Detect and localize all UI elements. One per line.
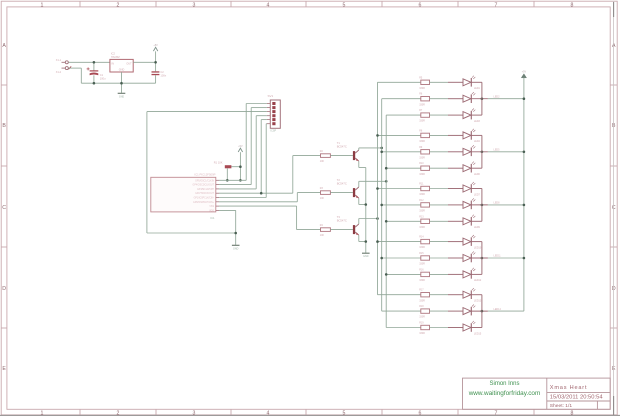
svg-text:C: C bbox=[2, 205, 6, 211]
svg-text:330R: 330R bbox=[419, 279, 425, 282]
svg-text:LED13: LED13 bbox=[474, 300, 482, 303]
svg-text:R11: R11 bbox=[419, 183, 424, 186]
svg-text:330R: 330R bbox=[419, 316, 425, 319]
svg-text:www.waitingforfriday.com: www.waitingforfriday.com bbox=[468, 390, 541, 397]
svg-text:VSS: VSS bbox=[209, 206, 214, 208]
svg-text:330R: 330R bbox=[419, 87, 425, 90]
svg-text:330R: 330R bbox=[419, 103, 425, 106]
svg-text:LED3: LED3 bbox=[474, 120, 481, 123]
svg-text:Simon Inns: Simon Inns bbox=[489, 381, 519, 387]
svg-text:BC547C: BC547C bbox=[337, 218, 347, 222]
svg-text:2: 2 bbox=[117, 3, 120, 9]
svg-text:7: 7 bbox=[495, 3, 498, 9]
svg-text:IC1: IC1 bbox=[210, 216, 215, 220]
svg-text:OUT: OUT bbox=[126, 62, 132, 65]
svg-text:BC547C: BC547C bbox=[337, 144, 347, 148]
svg-text:+5V: +5V bbox=[153, 44, 158, 47]
svg-text:LED9: LED9 bbox=[474, 226, 481, 229]
svg-text:R13: R13 bbox=[419, 215, 424, 218]
svg-text:100n: 100n bbox=[160, 73, 166, 77]
svg-text:LED7: LED7 bbox=[474, 193, 481, 196]
svg-text:LED12: LED12 bbox=[474, 279, 482, 282]
svg-text:R18: R18 bbox=[419, 305, 424, 308]
svg-text:330R: 330R bbox=[419, 210, 425, 213]
svg-text:+5V: +5V bbox=[522, 70, 527, 73]
svg-text:LED15: LED15 bbox=[474, 332, 482, 335]
svg-text:R16: R16 bbox=[419, 268, 424, 271]
svg-text:LED5: LED5 bbox=[494, 149, 501, 152]
svg-text:330R: 330R bbox=[419, 156, 425, 159]
svg-text:GND: GND bbox=[119, 95, 125, 98]
svg-text:SV1: SV1 bbox=[268, 94, 274, 98]
svg-text:330R: 330R bbox=[419, 246, 425, 249]
svg-text:330R: 330R bbox=[419, 120, 425, 123]
svg-text:GP3/MCLR/VPP: GP3/MCLR/VPP bbox=[197, 189, 214, 191]
svg-text:10K: 10K bbox=[320, 197, 325, 200]
svg-text:330R: 330R bbox=[419, 140, 425, 143]
svg-text:6: 6 bbox=[419, 3, 422, 9]
svg-text:Sheet: 1/1: Sheet: 1/1 bbox=[550, 403, 573, 409]
svg-text:R1 10K: R1 10K bbox=[214, 161, 223, 165]
svg-text:GP5/OSC1/CLKIN: GP5/OSC1/CLKIN bbox=[195, 180, 214, 182]
svg-text:LED14: LED14 bbox=[494, 308, 502, 311]
svg-text:R17: R17 bbox=[419, 289, 424, 292]
svg-text:LED6: LED6 bbox=[474, 173, 481, 176]
svg-text:330R: 330R bbox=[419, 193, 425, 196]
svg-text:15/03/2011 20:50:54: 15/03/2011 20:50:54 bbox=[550, 395, 604, 401]
svg-text:Xmas Heart: Xmas Heart bbox=[550, 385, 588, 391]
svg-text:D: D bbox=[2, 286, 6, 292]
svg-text:330R: 330R bbox=[419, 332, 425, 335]
svg-text:LED1: LED1 bbox=[474, 87, 481, 90]
svg-text:R14: R14 bbox=[419, 236, 424, 239]
svg-text:R10: R10 bbox=[419, 162, 424, 165]
svg-text:R15: R15 bbox=[419, 252, 424, 255]
svg-text:X1-2: X1-2 bbox=[56, 71, 62, 74]
svg-text:A: A bbox=[2, 43, 6, 49]
svg-text:100u: 100u bbox=[100, 76, 106, 80]
svg-text:VDD: VDD bbox=[209, 210, 214, 212]
svg-text:1: 1 bbox=[41, 3, 44, 9]
svg-text:C2: C2 bbox=[160, 70, 164, 74]
svg-text:R12: R12 bbox=[419, 199, 424, 202]
svg-text:LED10: LED10 bbox=[474, 246, 482, 249]
svg-text:GP2/T0CKI/COUT: GP2/T0CKI/COUT bbox=[195, 193, 214, 195]
svg-text:330R: 330R bbox=[419, 173, 425, 176]
svg-text:GP1/ICSPCLK/CIN-: GP1/ICSPCLK/CIN- bbox=[194, 198, 215, 200]
svg-text:4: 4 bbox=[267, 3, 270, 9]
svg-text:E: E bbox=[2, 366, 6, 372]
svg-text:5: 5 bbox=[343, 3, 346, 9]
svg-text:8: 8 bbox=[571, 3, 574, 9]
svg-text:C1: C1 bbox=[100, 73, 104, 77]
svg-text:+5V: +5V bbox=[238, 145, 243, 148]
svg-text:10K: 10K bbox=[320, 160, 325, 163]
svg-text:GP4/OSC2/CLKOUT: GP4/OSC2/CLKOUT bbox=[193, 185, 215, 187]
svg-text:LED4: LED4 bbox=[474, 140, 481, 143]
svg-text:10K: 10K bbox=[320, 234, 325, 237]
svg-text:IN: IN bbox=[111, 62, 114, 65]
svg-text:ICSP: ICSP bbox=[271, 129, 277, 132]
svg-text:78L05Z: 78L05Z bbox=[111, 55, 120, 59]
svg-text:330R: 330R bbox=[419, 299, 425, 302]
svg-text:IC1 PIC12F509P: IC1 PIC12F509P bbox=[194, 173, 215, 177]
svg-text:GND: GND bbox=[363, 255, 369, 258]
svg-text:BC547C: BC547C bbox=[337, 181, 347, 185]
svg-text:GP0/ICSPDAT/CIN+: GP0/ICSPDAT/CIN+ bbox=[193, 201, 215, 204]
svg-text:GND: GND bbox=[119, 69, 125, 72]
svg-text:330R: 330R bbox=[419, 226, 425, 229]
svg-text:LED8: LED8 bbox=[494, 202, 501, 205]
svg-text:B: B bbox=[2, 123, 6, 129]
svg-text:330R: 330R bbox=[419, 263, 425, 266]
svg-text:LED2: LED2 bbox=[494, 95, 501, 98]
svg-text:3: 3 bbox=[193, 3, 196, 9]
svg-text:LED11: LED11 bbox=[494, 255, 502, 258]
svg-text:R19: R19 bbox=[419, 322, 424, 325]
svg-text:X1-1: X1-1 bbox=[56, 59, 62, 62]
svg-text:GND: GND bbox=[233, 247, 239, 250]
